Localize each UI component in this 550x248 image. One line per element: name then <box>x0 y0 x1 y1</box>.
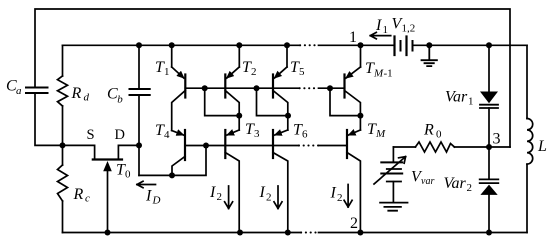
svg-text:I: I <box>259 184 266 201</box>
svg-text:Var: Var <box>445 89 468 106</box>
svg-text:4: 4 <box>164 129 170 141</box>
svg-text:D: D <box>152 195 161 207</box>
svg-text:3: 3 <box>254 128 260 140</box>
svg-text:0: 0 <box>436 129 442 141</box>
svg-text:D: D <box>115 127 125 143</box>
svg-text:var: var <box>421 176 434 187</box>
svg-text:3: 3 <box>493 131 501 148</box>
svg-text:S: S <box>87 127 95 143</box>
svg-text:M: M <box>373 68 384 80</box>
svg-text:1: 1 <box>164 66 170 78</box>
svg-text:2: 2 <box>266 192 272 204</box>
svg-text:I: I <box>375 17 382 34</box>
svg-text:2: 2 <box>251 66 257 78</box>
svg-text:I: I <box>145 188 152 205</box>
svg-text:c: c <box>85 193 90 205</box>
svg-text:1,2: 1,2 <box>402 23 416 35</box>
svg-text:R: R <box>71 85 82 102</box>
svg-text:M: M <box>375 128 386 140</box>
svg-text:I: I <box>209 184 216 201</box>
svg-text:2: 2 <box>337 192 343 204</box>
svg-text:2: 2 <box>467 182 473 194</box>
svg-text:-1: -1 <box>384 68 393 80</box>
svg-text:1: 1 <box>383 24 389 36</box>
svg-text:1: 1 <box>349 29 357 46</box>
svg-text:b: b <box>117 94 123 106</box>
svg-text:1: 1 <box>468 96 474 108</box>
svg-text:2: 2 <box>217 191 223 203</box>
svg-text:2: 2 <box>350 215 358 232</box>
svg-text:a: a <box>16 85 22 97</box>
svg-text:5: 5 <box>299 66 305 78</box>
svg-text:Var: Var <box>444 175 467 192</box>
svg-text:6: 6 <box>302 129 308 141</box>
svg-text:R: R <box>73 186 84 203</box>
svg-text:R: R <box>423 122 434 139</box>
svg-text:0: 0 <box>125 169 131 181</box>
svg-text:I: I <box>330 185 337 202</box>
svg-text:d: d <box>84 92 90 104</box>
svg-text:L: L <box>537 138 547 155</box>
